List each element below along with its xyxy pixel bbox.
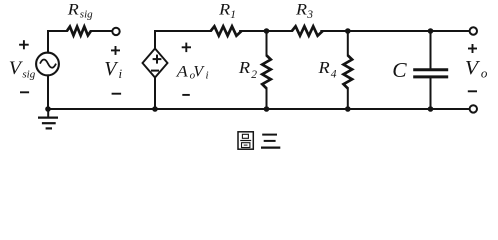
svg-text:A: A (176, 64, 188, 81)
svg-text:sig: sig (80, 8, 93, 20)
svg-text:i: i (119, 66, 123, 81)
svg-text:R: R (67, 0, 79, 19)
svg-text:2: 2 (251, 69, 257, 81)
svg-text:1: 1 (230, 9, 236, 21)
svg-text:V: V (104, 59, 118, 80)
svg-text:4: 4 (331, 69, 337, 81)
svg-text:i: i (206, 70, 209, 82)
svg-text:C: C (392, 58, 407, 82)
svg-text:3: 3 (306, 9, 313, 21)
svg-text:R: R (218, 0, 230, 18)
svg-text:R: R (317, 58, 329, 77)
svg-text:R: R (295, 0, 307, 18)
svg-text:sig: sig (22, 68, 35, 80)
svg-text:o: o (481, 66, 488, 81)
svg-text:R: R (238, 58, 250, 77)
